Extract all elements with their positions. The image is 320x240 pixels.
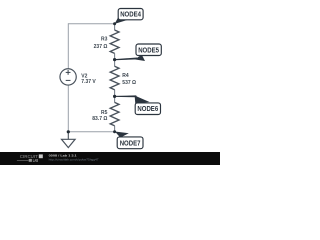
svg-text:7.37 V: 7.37 V xyxy=(81,79,96,85)
svg-text:LAB: LAB xyxy=(33,158,38,163)
svg-text:NODE7: NODE7 xyxy=(120,139,141,147)
svg-text:83.7 Ω: 83.7 Ω xyxy=(92,116,107,122)
svg-text:R3: R3 xyxy=(101,37,108,43)
svg-text:NODE6: NODE6 xyxy=(137,105,158,113)
svg-text:237 Ω: 237 Ω xyxy=(94,44,108,50)
svg-text:537 Ω: 537 Ω xyxy=(122,80,136,86)
svg-text:NODE5: NODE5 xyxy=(138,46,159,54)
svg-text:http://circuitlab.com/c/pdvw75: http://circuitlab.com/c/pdvw75hgg47 xyxy=(49,158,99,162)
svg-text:NODE4: NODE4 xyxy=(120,11,141,19)
svg-text:R4: R4 xyxy=(122,73,129,79)
